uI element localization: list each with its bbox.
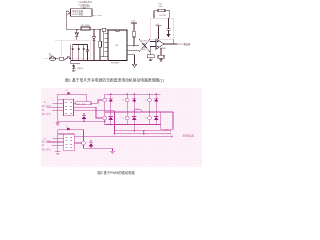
free-wheel diode VD17 bbox=[82, 113, 86, 115]
phase output wire B bbox=[115, 133, 171, 135]
compensation box (pink) bbox=[151, 18, 174, 39]
wire note to comparator box bbox=[83, 8, 85, 9]
leg1 lower MOSFET V2 bbox=[104, 112, 106, 116]
driver IC U7 bbox=[64, 134, 75, 151]
protection diode VD4 bbox=[73, 64, 75, 66]
bridge diodes D1-D3 bbox=[71, 49, 85, 51]
wire IC lower-left pin bbox=[100, 56, 108, 58]
svg-text:CR1 330Ω: CR1 330Ω bbox=[81, 25, 90, 27]
svg-text:V3: V3 bbox=[122, 100, 124, 102]
svg-text:V4: V4 bbox=[122, 118, 124, 120]
phase mid rail bbox=[105, 111, 173, 113]
resistor R3 bbox=[99, 30, 101, 41]
ferrite bead L2 bbox=[102, 28, 106, 31]
leg2 lower diode VD15 bbox=[133, 112, 135, 117]
U6 pin wire to output bbox=[74, 111, 115, 134]
leg2 upper diode VD12 bbox=[133, 94, 135, 98]
phase output wire A bbox=[115, 112, 171, 132]
IC U1 TOP224Y bbox=[108, 30, 127, 60]
optocoupler cross T1 bbox=[139, 39, 150, 52]
capacitor C7 bbox=[167, 18, 171, 34]
AC source G1 bbox=[49, 57, 55, 61]
U6 input labels bbox=[42, 104, 52, 116]
fuse FU bbox=[56, 58, 60, 60]
leg1 upper diode VD11 bbox=[110, 94, 112, 98]
feedback resistor R10 bbox=[159, 4, 163, 8]
resistor R8 to ground bbox=[151, 47, 156, 55]
ground under rail bbox=[55, 121, 60, 125]
leg3 lower diode VD16 bbox=[155, 112, 157, 117]
U7 MOSFET V7 bbox=[74, 142, 81, 144]
bridge top wire bbox=[73, 44, 84, 46]
leg2 upper MOSFET V3 bbox=[126, 94, 128, 98]
ground under U7 bbox=[55, 152, 61, 155]
svg-text:图2 基于PWM的驱动电路: 图2 基于PWM的驱动电路 bbox=[98, 170, 136, 175]
wire IC to optocoupler bottom bbox=[127, 50, 139, 52]
caption 1 bbox=[65, 77, 165, 82]
driver IC U6 bbox=[64, 99, 74, 115]
capacitor C2 bbox=[86, 45, 89, 61]
leg3 upper diode VD13 bbox=[155, 94, 157, 98]
op-amp U3 bbox=[156, 39, 164, 50]
leg1 lower diode VD14 bbox=[110, 112, 112, 117]
bottom rail bbox=[71, 60, 107, 62]
svg-text:1N4007: 1N4007 bbox=[77, 68, 83, 70]
U7 source wire bbox=[84, 145, 113, 151]
AC source leader dots bbox=[43, 58, 48, 60]
svg-text:R11 20k: R11 20k bbox=[160, 15, 167, 17]
svg-text:V1: V1 bbox=[100, 100, 102, 102]
annotation note text block bbox=[79, 0, 92, 8]
output label bbox=[178, 42, 191, 46]
leg3 upper MOSFET V5 bbox=[149, 94, 151, 98]
supply rail U6 bbox=[58, 94, 87, 102]
svg-text:R24: R24 bbox=[136, 108, 139, 110]
buffer amp triangle A1 bbox=[67, 11, 71, 15]
node dots on rail A bbox=[76, 29, 101, 30]
bridge diode leg 2 bbox=[78, 45, 80, 61]
bottom sub wire bbox=[71, 63, 80, 65]
bridge diode leg 3 bbox=[83, 45, 85, 61]
resistor R9 to ground bbox=[160, 48, 162, 56]
svg-text:R21 1.5kΩ: R21 1.5kΩ bbox=[77, 103, 87, 105]
wire rail A bbox=[67, 29, 108, 31]
wire U2 input rail bbox=[66, 13, 68, 30]
bridge rectifier box (pink) bbox=[55, 41, 90, 59]
feedback left wire bbox=[154, 11, 158, 18]
leg3 lower MOSFET V6 bbox=[149, 112, 151, 116]
stub to output A bbox=[166, 129, 168, 131]
AC source label bbox=[49, 53, 54, 58]
ground under IC pin bbox=[127, 55, 135, 65]
op-amp VCC bbox=[156, 24, 160, 26]
leg1 upper MOSFET V1 bbox=[104, 94, 106, 98]
leg2 lower MOSFET V4 bbox=[126, 112, 128, 116]
resistor R5 bbox=[133, 31, 136, 37]
svg-text:D2: D2 bbox=[66, 125, 68, 127]
ground under source wire bbox=[110, 151, 115, 154]
zener diode VD1 bbox=[76, 30, 78, 33]
U6 left loop wire bbox=[47, 94, 64, 121]
node dots top rail bbox=[110, 93, 157, 95]
wires optocoupler to op-amp bbox=[150, 42, 156, 47]
diode VD2 bbox=[93, 30, 95, 37]
output wire bbox=[164, 43, 178, 45]
wire IC to optocoupler top bbox=[127, 45, 139, 47]
svg-text:电压比较器: 电压比较器 bbox=[72, 9, 84, 13]
bridge VCC rail bbox=[105, 93, 161, 95]
svg-text:图1 基于单片开关电源的无刷直流电动机驱动电路原理图(1): 图1 基于单片开关电源的无刷直流电动机驱动电路原理图(1) bbox=[65, 77, 165, 82]
series diode D11 bbox=[68, 92, 71, 95]
comparator block U2 bbox=[71, 9, 93, 17]
U7 left loop wire bbox=[47, 130, 64, 152]
U6 pin wire mid bbox=[74, 107, 103, 118]
label TOP224Y bbox=[111, 62, 121, 64]
svg-text:VOUT 输出端: VOUT 输出端 bbox=[178, 42, 191, 46]
label R11 bbox=[160, 15, 167, 17]
phase output wire C bbox=[74, 136, 172, 138]
ground below VD4 bbox=[72, 68, 76, 71]
output label bbox=[183, 133, 195, 137]
caption 2 bbox=[98, 170, 136, 175]
bridge diode leg 1 bbox=[72, 45, 74, 61]
resistor CR1 bbox=[81, 27, 90, 30]
svg-text:+12V: +12V bbox=[131, 20, 136, 22]
IC pin stubs bbox=[105, 34, 109, 52]
svg-text:TOP224Y: TOP224Y bbox=[111, 62, 121, 64]
sense loop box right bbox=[161, 112, 173, 129]
power ground rail bbox=[58, 120, 105, 122]
svg-text:4N35: 4N35 bbox=[142, 49, 146, 51]
node dots bottom rail bbox=[76, 60, 104, 61]
U7 diode VD18 bbox=[89, 140, 93, 143]
switch S bbox=[64, 57, 69, 61]
svg-text:D1: D1 bbox=[66, 90, 68, 92]
schematic background bbox=[41, 88, 202, 167]
feedback right wire bbox=[165, 11, 170, 18]
dashed wire from U2 output bbox=[93, 15, 102, 17]
ground arrow under C7 bbox=[167, 34, 171, 38]
svg-text:V5: V5 bbox=[145, 100, 147, 102]
gate resistor R21 bbox=[76, 102, 91, 105]
svg-text:PC817: PC817 bbox=[142, 41, 147, 43]
series diode D12 bbox=[67, 127, 70, 130]
VCC bar above transformer bbox=[131, 20, 136, 22]
U7 input labels bbox=[42, 139, 52, 151]
svg-text:100k: 100k bbox=[159, 6, 163, 8]
supply rail U7 bbox=[58, 130, 84, 141]
link stub bbox=[143, 131, 145, 134]
left vertical rail bbox=[70, 45, 72, 64]
rail resistor R24 bbox=[135, 110, 142, 112]
bottom bus rail bbox=[105, 124, 161, 126]
svg-text:V2: V2 bbox=[100, 118, 102, 120]
svg-text:V6: V6 bbox=[145, 118, 147, 120]
